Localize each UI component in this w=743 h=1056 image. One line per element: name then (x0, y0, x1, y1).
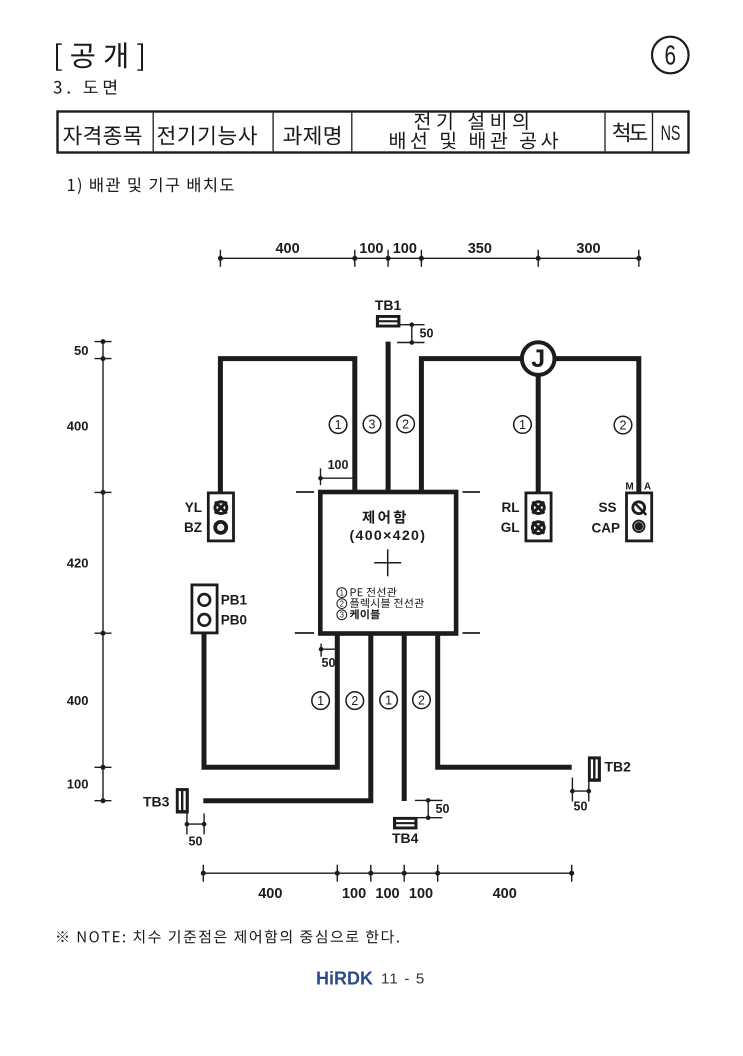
title [공개] (56, 42, 143, 70)
svg-text:2: 2 (620, 419, 627, 433)
svg-text:50: 50 (189, 835, 203, 849)
push button PB1 symbol (199, 594, 211, 606)
svg-text:100: 100 (393, 241, 417, 257)
svg-text:50: 50 (436, 802, 450, 816)
caption 1) 배관 및 기구 배치도 (68, 177, 234, 194)
centerline dash bottom-right (463, 632, 481, 634)
switch box SS/CAP (627, 493, 652, 541)
conduit marker 1 (bottom run 3) (380, 691, 398, 709)
centerline dash top-left (296, 491, 314, 493)
svg-text:3: 3 (369, 418, 376, 432)
conduit marker 3 (top run 2) (363, 415, 381, 433)
subtitle 3. 도면 (54, 80, 117, 95)
control box 제어함 outline (320, 492, 456, 634)
svg-text:HiRDK: HiRDK (316, 969, 373, 989)
dimension 50 at TB4 (415, 798, 450, 820)
svg-text:3: 3 (340, 611, 344, 620)
svg-text:1: 1 (317, 694, 324, 708)
svg-text:PB1: PB1 (221, 592, 248, 607)
svg-text:6: 6 (665, 40, 677, 71)
svg-text:2: 2 (418, 693, 425, 707)
lamp GL symbol (532, 522, 544, 534)
svg-text:TB2: TB2 (605, 759, 632, 775)
svg-text:GL: GL (501, 520, 520, 535)
svg-text:RL: RL (502, 500, 520, 515)
dimension 50 at TB3 (185, 813, 207, 848)
svg-text:(400×420): (400×420) (350, 528, 427, 544)
table cell 전기기능사 (158, 126, 257, 146)
svg-text:CAP: CAP (591, 521, 620, 536)
conduit marker 1 (bottom run 1) (312, 692, 330, 710)
wire: conduit run ② control box up to top bus, across through J to SS/CAP drop (421, 359, 638, 492)
svg-text:M: M (625, 482, 633, 493)
control box center cross (374, 549, 401, 576)
note ※ NOTE (57, 930, 399, 944)
wire: conduit run ① control box down to bottom bus across to PB1/PB0 (204, 634, 337, 768)
conduit marker 2 (right run SS) (614, 416, 632, 434)
dimension 50 at control box bottom-left (319, 644, 336, 670)
control box label 제어함 (362, 510, 406, 524)
svg-text:400: 400 (275, 241, 299, 257)
bottom dimension labels (258, 886, 517, 902)
page number circle 6 (652, 37, 689, 74)
svg-text:2: 2 (351, 694, 358, 708)
wire: conduit run ① YL/BZ up to top bus across and down to control box (220, 359, 354, 492)
conduit marker 1 (top run 1) (329, 416, 347, 434)
svg-text:TB1: TB1 (375, 297, 402, 313)
junction box J (522, 342, 555, 375)
svg-text:YL: YL (185, 500, 202, 515)
centerline dash bottom-left (295, 632, 314, 634)
svg-text:2: 2 (402, 417, 409, 431)
push button PB0 symbol (199, 614, 211, 626)
svg-text:100: 100 (342, 886, 366, 902)
wire: conduit run ② control box down to bottom bus across to TB2 (438, 634, 572, 768)
table cell 척도 (613, 123, 647, 143)
svg-text:100: 100 (375, 886, 399, 902)
lamp RL symbol (532, 502, 544, 514)
wire: conduit run ② control box down across to TB3 (203, 634, 370, 801)
svg-text:350: 350 (468, 241, 492, 257)
svg-text:400: 400 (258, 886, 282, 902)
terminal block TB4 (393, 817, 418, 830)
selector switch SS symbol (633, 502, 647, 515)
svg-text:SS: SS (598, 500, 616, 515)
svg-text:TB3: TB3 (143, 794, 170, 810)
conduit marker 2 (top run 3) (397, 415, 415, 433)
svg-text:J: J (531, 345, 545, 373)
legend item 1: PE 전선관 (337, 587, 397, 597)
bottom dimension line (400/100/100/100/400) (201, 865, 574, 882)
receptacle CAP symbol (633, 521, 644, 532)
wire: cable run ① control box straight down to TB4 (402, 634, 407, 802)
top dimension labels (275, 241, 600, 257)
dimension 100 at control box top-left (318, 458, 353, 485)
left dimension labels (67, 343, 89, 792)
svg-text:PB0: PB0 (221, 612, 247, 627)
svg-text:100: 100 (328, 458, 349, 472)
svg-text:TB4: TB4 (392, 830, 419, 846)
svg-text:50: 50 (420, 327, 434, 341)
lamp fixture box YL/BZ (208, 493, 233, 541)
svg-text:A: A (644, 482, 651, 493)
svg-text:400: 400 (493, 886, 517, 902)
svg-text:BZ: BZ (184, 520, 202, 535)
table cell 배선 및 배관 공사 (390, 132, 558, 150)
terminal block TB1 (376, 315, 401, 328)
table cell 자격종목 (63, 126, 141, 146)
svg-text:1: 1 (335, 418, 342, 432)
conduit marker 1 (right run J) (514, 416, 532, 434)
svg-text:1: 1 (340, 588, 344, 597)
conduit marker 2 (bottom run 2) (346, 692, 364, 710)
svg-text:1: 1 (519, 418, 526, 432)
svg-text:400: 400 (67, 693, 89, 708)
dimension 50 at TB2 (570, 778, 591, 814)
svg-text:420: 420 (67, 556, 89, 571)
dimension 50 at TB1 (397, 322, 433, 344)
push button box PB1/PB0 (192, 585, 217, 633)
centerline dash top-right (463, 491, 481, 493)
svg-text:11 - 5: 11 - 5 (381, 971, 425, 988)
legend item 2: 플렉시블 전선관 (337, 598, 424, 608)
conduit marker 2 (bottom run 4) (413, 691, 431, 709)
left dimension line (50/400/420/400/100) (95, 339, 112, 803)
title block table frame (58, 112, 689, 153)
svg-text:1: 1 (385, 694, 392, 708)
svg-text:NS: NS (661, 121, 681, 144)
svg-text:50: 50 (74, 343, 88, 358)
table cell 전기 설비의 (415, 113, 528, 131)
wire: cable run ③ from TB1 down to control box (386, 342, 391, 492)
svg-text:100: 100 (67, 777, 89, 792)
svg-text:2: 2 (340, 599, 344, 608)
svg-text:100: 100 (409, 886, 433, 902)
terminal block TB2 (588, 756, 601, 781)
terminal block TB3 (176, 788, 189, 813)
svg-text:50: 50 (574, 800, 588, 814)
buzzer BZ symbol (215, 522, 226, 533)
footer logo HRDK (316, 969, 373, 989)
lamp YL symbol (215, 502, 227, 514)
svg-text:100: 100 (359, 241, 383, 257)
svg-text:400: 400 (67, 418, 89, 433)
legend item 3: 케이블 (337, 609, 380, 619)
svg-text:300: 300 (576, 241, 600, 257)
svg-text:50: 50 (322, 656, 336, 670)
table cell 과제명 (283, 126, 340, 146)
wire: drop from junction box J down to RL/GL (536, 359, 541, 492)
lamp fixture box RL/GL (526, 493, 551, 541)
top dimension line (400/100/100/350/300) (218, 250, 641, 267)
